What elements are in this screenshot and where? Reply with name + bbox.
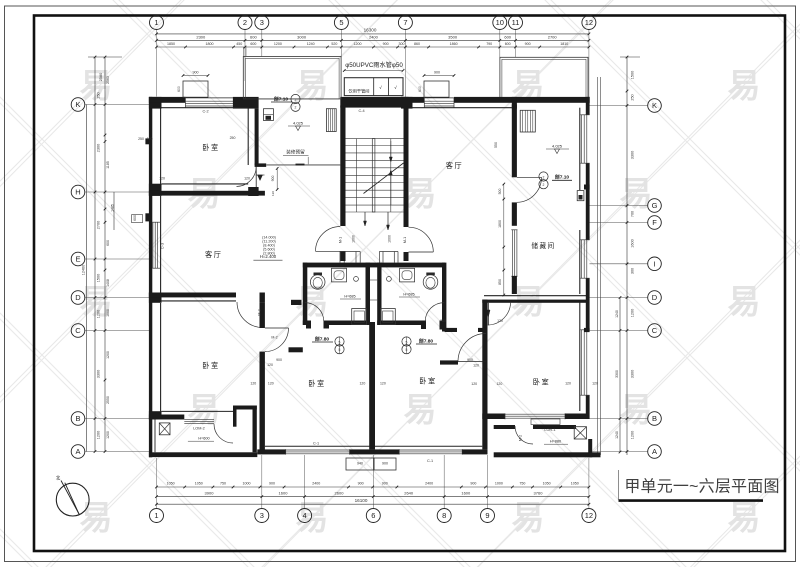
svg-text:300: 300: [399, 42, 405, 46]
svg-text:易: 易: [620, 391, 653, 428]
svg-text:M-2: M-2: [271, 335, 277, 339]
living room L bottom wall thin face: [162, 300, 237, 302]
balcony door arc D4: [214, 424, 233, 443]
svg-text:M-1: M-1: [403, 237, 407, 243]
svg-text:1500: 1500: [97, 274, 101, 282]
svg-text:3760: 3760: [534, 490, 544, 495]
svg-text:120: 120: [496, 382, 502, 386]
door D2 arc living room to bedroom: [237, 302, 263, 328]
right apt top wall inner thin face: [413, 107, 512, 109]
bedroom1 right wall heavy face: [255, 109, 259, 166]
elevation marker right hall: [546, 144, 569, 154]
svg-text:H=600: H=600: [198, 436, 209, 440]
flue shaft above top wall: [183, 81, 208, 97]
shaft between bathrooms: [370, 280, 377, 300]
svg-text:卧室: 卧室: [308, 379, 325, 388]
bathroomR floor drain: [387, 277, 392, 282]
window C-2 top wall: [185, 98, 233, 108]
door D3 leaf: [265, 327, 289, 329]
svg-text:E: E: [75, 255, 80, 264]
bathroomL toilet: [332, 268, 347, 282]
svg-text:易: 易: [728, 67, 761, 104]
svg-text:1240: 1240: [615, 310, 619, 318]
svg-text:H=685: H=685: [344, 294, 355, 298]
svg-text:易: 易: [296, 67, 329, 104]
svg-text:4.025: 4.025: [293, 121, 304, 126]
svg-text:1050: 1050: [571, 482, 579, 486]
storage wall stub below window: [512, 276, 517, 294]
right wall stub at corridor level: [584, 328, 590, 332]
svg-text:1200: 1200: [631, 309, 635, 317]
svg-text:客厅: 客厅: [205, 250, 222, 259]
stair up arrow: [389, 170, 392, 205]
svg-text:900: 900: [358, 482, 364, 486]
wall jog right of bedroom1: [255, 163, 267, 167]
bedroom4 bottom wall right: [565, 414, 590, 420]
svg-text:120: 120: [147, 137, 153, 141]
canopy line entry recess: [266, 157, 340, 166]
svg-text:16300: 16300: [364, 28, 377, 33]
svg-text:16100: 16100: [355, 498, 368, 503]
radiator right apt: [520, 110, 535, 132]
svg-text:B: B: [652, 414, 657, 423]
svg-text:2550: 2550: [106, 396, 110, 404]
svg-text:北: 北: [56, 475, 61, 482]
svg-text:450: 450: [236, 42, 242, 46]
svg-text:1050: 1050: [167, 482, 175, 486]
hall top wall thin face: [162, 183, 249, 185]
svg-text:K: K: [75, 100, 80, 109]
svg-text:9: 9: [485, 511, 489, 520]
pilaster dim box: [132, 215, 143, 223]
bottom dimension chain sub spans: [155, 482, 590, 489]
svg-text:卧室: 卧室: [419, 376, 436, 385]
bottom wall between windows: [350, 449, 400, 454]
svg-text:H=880: H=880: [550, 439, 561, 443]
bedroomL bottom wall thin face: [162, 410, 234, 412]
svg-text:卧室: 卧室: [202, 361, 219, 370]
svg-text:11: 11: [512, 18, 520, 27]
svg-text:饮用干管间: 饮用干管间: [349, 88, 370, 95]
top wall heavy face left part: [149, 97, 186, 103]
svg-text:2: 2: [543, 183, 545, 187]
corridor bottom wall piece: [289, 347, 303, 352]
svg-text:7: 7: [403, 18, 407, 27]
bathroomR shower box: [380, 309, 395, 325]
right apt top wall heavy right part: [454, 97, 590, 103]
svg-text:1200: 1200: [106, 351, 110, 359]
bathroomL top wall / entry bottom wall: [303, 263, 445, 268]
svg-text:12: 12: [585, 18, 593, 27]
svg-text:900: 900: [383, 42, 389, 46]
svg-text:1240: 1240: [307, 42, 315, 46]
left total dimension 12460: [82, 105, 87, 452]
axis circles top row: [150, 16, 596, 100]
bedroom3 top wall piece: [440, 360, 458, 364]
svg-text:C-2: C-2: [202, 109, 208, 113]
living room L bottom wall right stub: [260, 293, 265, 303]
svg-text:1: 1: [154, 18, 158, 27]
window C-1 bedroomC: [286, 449, 350, 454]
bathroomR toilet: [400, 268, 415, 282]
svg-text:剖7.80: 剖7.80: [419, 337, 433, 344]
svg-text:120: 120: [268, 382, 274, 386]
svg-text:1200: 1200: [97, 310, 101, 318]
left shaft fixture: [264, 109, 274, 121]
svg-text:1000: 1000: [495, 482, 503, 486]
svg-text:1240: 1240: [615, 431, 619, 439]
title block left rule: [618, 470, 620, 500]
svg-text:易: 易: [728, 283, 761, 320]
svg-text:2400: 2400: [369, 35, 379, 40]
threshold mark: [487, 310, 490, 317]
svg-text:储藏间: 储藏间: [531, 241, 555, 250]
svg-text:2: 2: [295, 98, 297, 102]
svg-text:120: 120: [473, 363, 479, 367]
svg-text:√: √: [394, 85, 397, 90]
svg-text:M-1: M-1: [339, 237, 343, 243]
svg-text:120: 120: [592, 382, 598, 386]
svg-text:10: 10: [496, 18, 504, 27]
svg-text:900: 900: [193, 71, 199, 75]
svg-text:900: 900: [269, 482, 275, 486]
svg-text:790: 790: [486, 42, 492, 46]
svg-text:900: 900: [434, 71, 440, 75]
svg-text:√: √: [379, 85, 382, 90]
right apt top wall corner pier at living wall: [512, 97, 517, 109]
left dimension chain inner: [104, 56, 115, 453]
svg-text:易: 易: [512, 499, 545, 536]
svg-text:3: 3: [260, 511, 264, 520]
svg-text:900: 900: [470, 482, 476, 486]
stairwell right wall lower stub: [404, 252, 409, 261]
svg-text:易: 易: [296, 499, 329, 536]
svg-text:500: 500: [498, 189, 502, 195]
corridor south wall right apt: [445, 328, 488, 332]
right inner sub dimension: [615, 296, 621, 453]
section marker upper left: [271, 94, 300, 111]
svg-text:600: 600: [418, 86, 422, 92]
svg-text:易: 易: [728, 499, 761, 536]
svg-text:4.025: 4.025: [552, 144, 563, 149]
stairwell right wall upper: [404, 106, 409, 228]
stair flight edges: [346, 139, 404, 212]
bottom wall bedroomC: [257, 449, 285, 454]
electric panel box right hall: [577, 191, 584, 201]
svg-text:客厅: 客厅: [446, 161, 463, 170]
svg-text:700: 700: [631, 211, 635, 217]
entry door M-1 right arc: [409, 227, 434, 252]
svg-text:520: 520: [331, 42, 337, 46]
svg-text:易: 易: [80, 499, 113, 536]
right outer wall heavy segments: [586, 97, 590, 419]
svg-text:6: 6: [371, 511, 375, 520]
svg-text:1000: 1000: [352, 235, 356, 243]
bathroomL door arc: [305, 303, 324, 322]
svg-text:2700: 2700: [97, 221, 101, 229]
axis circles left column: [71, 98, 150, 459]
top dimension chain axis spans: [155, 35, 590, 42]
svg-text:300: 300: [631, 268, 635, 274]
svg-text:120: 120: [244, 177, 250, 181]
svg-text:250: 250: [138, 137, 144, 141]
top dimension chain total 16300: [155, 28, 590, 36]
dim 900 above right flue: [418, 71, 455, 92]
svg-text:2: 2: [543, 175, 545, 179]
left wall junction pier top: [149, 97, 162, 109]
svg-text:3900: 3900: [205, 490, 215, 495]
balcony LOR-2 left edge thin face: [154, 420, 156, 453]
stairwell top wall: [340, 97, 408, 108]
section marker lower left: [312, 335, 344, 353]
bathroomR left wall: [377, 263, 381, 325]
svg-text:1860: 1860: [450, 42, 458, 46]
svg-text:甲单元一~六层平面图: 甲单元一~六层平面图: [624, 478, 779, 496]
svg-text:1050: 1050: [543, 482, 551, 486]
svg-text:120: 120: [267, 363, 273, 367]
balcony LOR-1 right edge: [588, 439, 592, 457]
svg-text:250: 250: [631, 94, 635, 100]
svg-text:120: 120: [380, 382, 386, 386]
svg-text:H=2.400: H=2.400: [260, 254, 277, 259]
right dimension chain: [620, 56, 640, 455]
svg-text:120: 120: [497, 319, 503, 323]
hall top wall heavy face: [149, 191, 265, 196]
svg-text:3300: 3300: [631, 151, 635, 159]
svg-text:250: 250: [440, 319, 446, 323]
svg-text:D: D: [75, 293, 81, 302]
svg-text:LOM-2: LOM-2: [193, 426, 205, 430]
svg-text:3: 3: [260, 18, 264, 27]
wall bedroomL / bedroomC upper segment: [260, 302, 265, 328]
top wall inner thin face: [162, 107, 249, 109]
svg-text:250: 250: [230, 136, 236, 140]
svg-text:8: 8: [442, 511, 446, 520]
outer right balcony line: [598, 77, 601, 455]
svg-text:600: 600: [133, 215, 137, 221]
svg-text:900: 900: [467, 358, 473, 362]
bathroomL left wall: [303, 263, 308, 325]
svg-text:1200: 1200: [631, 431, 635, 439]
svg-text:900: 900: [382, 482, 388, 486]
right apt top wall heavy left part: [401, 97, 424, 103]
svg-text:2600: 2600: [335, 490, 345, 495]
bottom dimension chain total 16100: [155, 498, 590, 506]
balcony window rail: [184, 420, 214, 424]
svg-text:2700: 2700: [548, 35, 558, 40]
svg-text:1500: 1500: [631, 71, 635, 79]
door D6 bedroom3 leaf: [458, 361, 486, 363]
floor level symbol entry: [256, 175, 265, 181]
left wall window C-3: [152, 222, 161, 268]
balcony LOR-1 door arc: [515, 426, 533, 444]
svg-text:2580: 2580: [99, 73, 103, 81]
svg-text:易: 易: [188, 391, 221, 428]
door D6 arc: [458, 334, 486, 362]
svg-text:3500: 3500: [448, 35, 458, 40]
bottom dimension chain axis spans: [155, 490, 590, 498]
H= height notes: [188, 292, 568, 444]
left wall junction pier bedroomL: [149, 411, 162, 419]
svg-text:2640: 2640: [404, 490, 414, 495]
bathroomR right wall: [442, 263, 446, 332]
bathroomR door arc: [425, 303, 444, 322]
svg-text:G: G: [652, 201, 658, 210]
svg-text:剖7.80: 剖7.80: [315, 335, 329, 342]
left wall pilaster 1: [145, 138, 149, 144]
svg-text:940: 940: [357, 462, 363, 466]
svg-text:1800: 1800: [206, 42, 214, 46]
left wall pilaster 2: [145, 213, 149, 221]
svg-text:1810: 1810: [560, 42, 568, 46]
stair exit arrows: [364, 212, 390, 230]
svg-text:1600: 1600: [461, 490, 471, 495]
svg-text:900: 900: [525, 42, 531, 46]
svg-text:600: 600: [177, 86, 181, 92]
stair window radiator on left wall: [326, 109, 336, 132]
title underline: [619, 499, 764, 502]
svg-text:M-2: M-2: [258, 309, 262, 315]
entry door M-1 left arc: [316, 227, 341, 252]
svg-text:1600: 1600: [631, 239, 635, 247]
bottom wall bedroom3 right part: [462, 449, 487, 454]
section marker upper right: [539, 172, 572, 189]
svg-text:1200: 1200: [106, 431, 110, 439]
svg-text:2400: 2400: [425, 482, 433, 486]
svg-text:12: 12: [585, 511, 593, 520]
top wall corner pier right: [233, 97, 259, 109]
stair break line: [364, 163, 404, 194]
svg-text:1000: 1000: [242, 482, 250, 486]
bathroomL wash basin: [310, 273, 325, 290]
bathroomL floor drain: [354, 277, 359, 282]
UPVC pipe text: [343, 61, 404, 72]
svg-text:850: 850: [498, 279, 502, 285]
svg-text:C-1: C-1: [313, 442, 319, 446]
hall note text: [283, 149, 309, 156]
svg-text:120: 120: [250, 382, 256, 386]
table boxes 940 900: [346, 458, 396, 470]
svg-text:2: 2: [295, 106, 297, 110]
svg-text:H=685: H=685: [403, 292, 414, 296]
svg-text:1850: 1850: [167, 42, 175, 46]
svg-text:600: 600: [106, 240, 110, 246]
stairwell left wall lower stub: [340, 251, 345, 261]
svg-text:剖7.10: 剖7.10: [274, 95, 288, 102]
svg-text:易: 易: [404, 391, 437, 428]
duct notch right in entry: [379, 252, 398, 263]
left outer wall heavy face: [149, 97, 152, 457]
svg-text:1185: 1185: [106, 161, 110, 169]
bathroomR wash basin: [423, 273, 438, 290]
svg-text:2563: 2563: [106, 76, 110, 84]
duct notch left in entry: [340, 252, 360, 263]
bathroomR door jamb blocks: [421, 321, 446, 330]
bathroomL door jamb blocks: [306, 321, 329, 329]
svg-text:φ50UPVC雨水管φ50: φ50UPVC雨水管φ50: [345, 61, 403, 69]
svg-text:250: 250: [97, 92, 101, 98]
stair down arrow: [389, 141, 392, 162]
door jamb block hall: [248, 187, 258, 196]
svg-text:D: D: [652, 293, 658, 302]
svg-text:120: 120: [565, 382, 571, 386]
section marker lower right: [402, 337, 437, 354]
left dimension chain outer: [88, 56, 122, 453]
svg-text:卧室: 卧室: [202, 143, 219, 152]
divider bedroom3 / bedroom4: [482, 300, 487, 450]
svg-text:3000: 3000: [297, 35, 307, 40]
window C-1 bedroom3: [399, 449, 462, 454]
pier between bedroomL and balcony: [233, 406, 257, 453]
svg-text:3300: 3300: [615, 370, 619, 378]
wall stub below door D5: [512, 202, 517, 225]
bedroom4 bottom wall left: [482, 414, 505, 420]
svg-text:卧室: 卧室: [533, 378, 550, 387]
bay sill below bedroom4 window: [531, 419, 560, 425]
balcony LOR-2 shaft box: [159, 423, 170, 435]
elevation marker stair hall: [288, 121, 310, 131]
svg-text:2300: 2300: [196, 35, 206, 40]
svg-text:600: 600: [250, 35, 257, 40]
svg-text:900: 900: [276, 358, 282, 362]
top dimension chain sub spans: [155, 42, 590, 48]
left wall inner thin face living: [160, 196, 162, 293]
left wall junction pier hall: [149, 184, 162, 196]
svg-text:600: 600: [504, 35, 511, 40]
bottom wall thin face above: [265, 445, 482, 447]
svg-text:120: 120: [159, 177, 165, 181]
bedroomL bottom wall heavy face: [149, 415, 184, 420]
door D5 living room R: [517, 177, 542, 202]
right outer wall window 3: [581, 330, 590, 395]
bathroomL right wall: [366, 263, 371, 325]
svg-text:5: 5: [339, 18, 343, 27]
bathroomR bottom wall: [377, 321, 424, 326]
svg-text:2: 2: [243, 18, 247, 27]
svg-text:A: A: [75, 447, 80, 456]
window and door tags: [161, 109, 556, 463]
axis circles right column: [590, 99, 662, 459]
living room R right wall: [512, 105, 517, 178]
bedroom1 door leaf: [255, 167, 257, 188]
svg-text:1200: 1200: [97, 431, 101, 439]
svg-text:120: 120: [471, 382, 477, 386]
svg-text:I: I: [653, 259, 655, 268]
svg-text:C-1: C-1: [427, 459, 433, 463]
svg-text:1800: 1800: [498, 220, 502, 228]
level text stack: [253, 236, 282, 261]
svg-text:860: 860: [414, 42, 420, 46]
svg-text:1408: 1408: [106, 279, 110, 287]
bedroom4 door D7 arc: [488, 302, 511, 325]
left wall inner thin face bedroomL: [160, 303, 162, 411]
svg-text:1000: 1000: [106, 309, 110, 317]
svg-text:C: C: [652, 326, 658, 335]
pipe duct room: [344, 78, 403, 96]
bedroom1 right wall thin face: [247, 108, 249, 165]
dim 900 vertical at recess: [271, 167, 279, 196]
small interior dims: [133, 136, 598, 386]
dim 900 above flue: [177, 71, 209, 92]
svg-text:120: 120: [359, 382, 365, 386]
svg-text:剖7.10: 剖7.10: [555, 174, 569, 181]
north arrow: [56, 475, 89, 517]
balcony LOR-2 bottom slab: [149, 452, 257, 457]
living room L bottom wall heavy face: [149, 293, 236, 298]
divider bedroomC / bedroom3: [369, 322, 375, 449]
bedroom4 bottom window: [505, 413, 565, 419]
svg-text:600: 600: [505, 42, 511, 46]
